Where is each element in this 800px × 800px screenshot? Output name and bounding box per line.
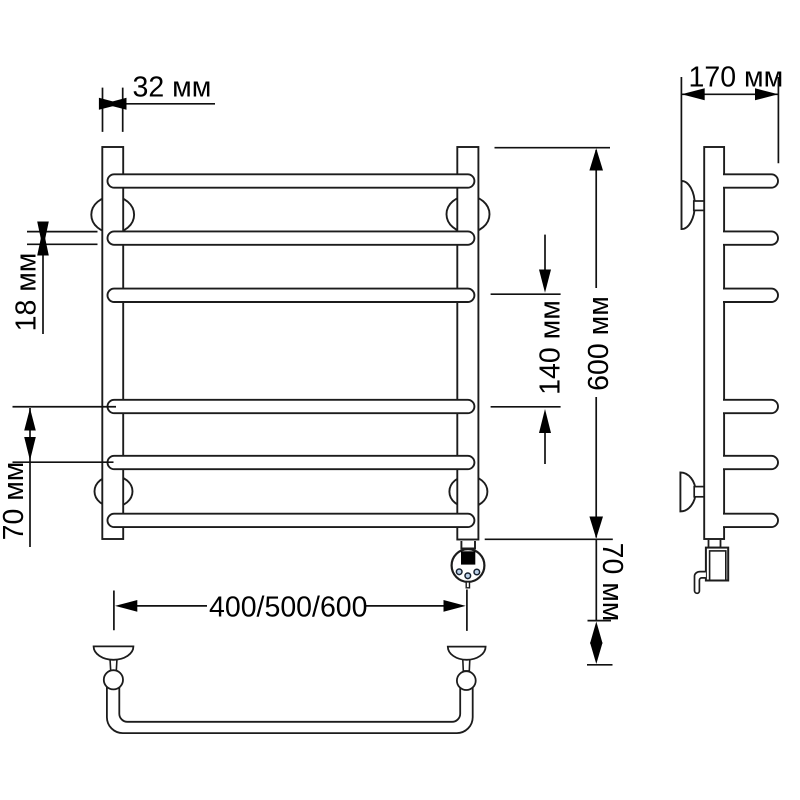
svg-text:70 мм: 70 мм [0,462,30,541]
side view: element box inner [710,551,726,581]
dim 170mm: left arrow [682,88,705,100]
dim 140mm: up arrow [539,409,551,433]
dim 140mm: lower tail [544,433,546,464]
front view: right vertical post [457,147,478,540]
front view: lower-left wall bracket circle [95,476,133,507]
dim 140mm: upper extension line [491,293,561,295]
side view: rung 5 stub [723,456,778,469]
front view: rung 6 [108,514,475,527]
side view: cable hook [695,572,706,594]
side view: upper bracket stem [694,201,705,210]
bottom view: left ball joint [104,670,123,689]
dim 600mm: down arrow [589,517,603,539]
front view: rung 4 [108,400,475,413]
front view: rung 2 [108,231,475,244]
front view: upper-right wall bracket circle [447,196,490,233]
dim 400/500/600: extension lines [114,590,467,631]
svg-text:70 мм: 70 мм [596,543,628,622]
front view: rung 3 [108,289,475,302]
front view: element bottom nipple [466,582,469,588]
side view: lower bracket stem [694,487,705,497]
bottom view: right ball joint [457,671,476,690]
front view: upper-left wall bracket circle [91,197,134,233]
side view: rung 2 stub [723,231,778,244]
side view: upper wall bracket dome [682,181,695,229]
front view: element pin 2 [465,573,471,579]
svg-text:600 мм: 600 мм [583,296,615,391]
dim 32mm: bowtie arrows [99,98,115,110]
svg-text:18 мм: 18 мм [11,253,43,332]
side view: rung 4 stub [723,400,778,413]
side view: rung 6 stub [723,514,778,527]
front view: rung 1 [108,174,475,187]
dim 400/500/600: left arrow [115,600,137,612]
dim 70mm left: up arrow [24,408,36,430]
dim 70mm left: extension lines [13,407,117,462]
dim 70mm left: down arrow [24,437,36,461]
dim 18mm: extension lines [27,232,98,245]
front view: heating element body circle [452,549,485,582]
bottom view: U-shaped tube [107,686,473,733]
side view: rung 3 stub [723,289,778,302]
dim 400/500/600: right arrow [444,600,466,612]
dim 170mm: right arrow [755,88,778,100]
dim 70mm right: tick lines [587,621,613,665]
front view: heating element black connector [461,551,475,564]
dim 32mm: extension lines [103,88,123,132]
svg-text:140 мм: 140 мм [535,300,567,395]
front view: element pin 3 [474,569,480,575]
side view: element box outer [706,548,728,581]
front view: lower-right wall bracket circle [449,476,487,508]
svg-text:170 мм: 170 мм [689,62,784,94]
dim 400/500/600: dimension line segments [137,605,444,607]
dim 70mm right: leader line [595,539,597,620]
dim 170mm: extension lines [681,77,778,181]
dim 140mm: down arrow [539,270,551,293]
bottom view: right mushroom cap [448,647,486,660]
dim 140mm: upper tail [544,235,546,270]
front view: left vertical post [102,147,123,539]
front view: element pin 1 [456,569,462,575]
front view: heating element stem [461,541,475,548]
side view: rung 1 stub [723,174,778,187]
dim 170mm: dimension line [681,93,778,95]
side view: lower wall bracket dome [680,472,695,511]
bottom view: left mushroom cap [94,646,134,659]
side view: element neck [709,540,721,548]
dim 600mm: bottom extension line [485,538,613,540]
dim 70mm left: dimension line [29,408,31,547]
dim 18mm: bowtie arrows [37,222,49,241]
dim 140mm: lower extension line [491,406,561,408]
dim 600mm: dimension line segments [595,150,597,538]
front view: rung 5 [108,456,475,469]
svg-text:32 мм: 32 мм [133,72,212,104]
dim 600mm: top extension line [495,147,611,149]
dim 70mm right: diamond double arrow [590,622,603,644]
side view: vertical post [704,147,724,539]
dim 18mm: leader line [42,252,44,334]
dim 600mm: up arrow [589,148,603,170]
dim 32mm: dimension line [126,103,215,105]
bottom view: left cap stem [110,655,117,671]
bottom view: right cap stem [463,655,470,671]
svg-text:400/500/600: 400/500/600 [209,592,368,624]
